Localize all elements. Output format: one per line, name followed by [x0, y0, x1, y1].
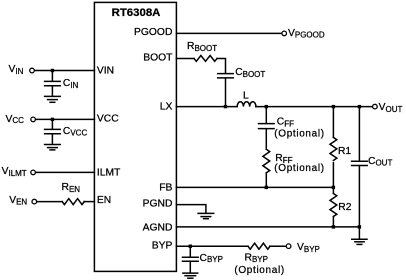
- capacitor CBOOT: [218, 73, 234, 75]
- wire CFF branch upper: [265, 107, 267, 123]
- svg-text:FB: FB: [159, 183, 172, 194]
- capacitor COUT: [352, 160, 368, 162]
- svg-text:VEN: VEN: [9, 195, 27, 206]
- IC U1 body RT6308A: [94, 2, 176, 271]
- wire LX to VOUT: [256, 106, 373, 108]
- svg-text:BYP: BYP: [152, 240, 173, 251]
- node BOOT-LX junction: [224, 105, 227, 108]
- ground CIN: [45, 95, 61, 97]
- svg-text:R1: R1: [338, 146, 351, 157]
- node R2-AGND junction: [332, 225, 335, 228]
- wire PGOOD: [176, 32, 282, 34]
- terminal VEN: [32, 199, 37, 204]
- resistor RFF: [263, 149, 270, 173]
- capacitor CVCC: [45, 128, 61, 130]
- wire BOOT left segment: [176, 58, 194, 60]
- terminal VCC: [31, 117, 36, 122]
- wire RFF to FB: [265, 173, 267, 188]
- capacitor CIN: [45, 80, 61, 82]
- svg-text:LX: LX: [160, 102, 173, 113]
- wire R2 upper: [332, 187, 334, 193]
- wire BOOT to CBOOT corner: [217, 59, 226, 73]
- wire ILMT: [36, 171, 95, 173]
- node VCC junction: [51, 118, 54, 121]
- svg-text:R2: R2: [338, 202, 351, 213]
- svg-text:VCC: VCC: [6, 114, 25, 125]
- wire VIN: [34, 70, 94, 72]
- wire PGND: [176, 205, 206, 213]
- svg-text:EN: EN: [97, 195, 111, 206]
- node CFF-LX junction: [265, 105, 268, 108]
- svg-text:VIN: VIN: [97, 66, 114, 77]
- svg-text:VBYP: VBYP: [297, 242, 320, 254]
- svg-text:BOOT: BOOT: [143, 52, 173, 63]
- wire CFF to RFF: [265, 129, 267, 149]
- svg-text:PGOOD: PGOOD: [134, 27, 172, 38]
- terminal VBYP: [286, 244, 291, 249]
- terminal VILMT: [31, 170, 36, 175]
- wire FB: [176, 186, 333, 188]
- svg-text:CBOOT: CBOOT: [235, 67, 265, 79]
- resistor RBYP: [248, 243, 270, 249]
- wire CBYP branch: [189, 246, 191, 256]
- wire LX: [176, 106, 237, 108]
- node COUT-AGND junction: [358, 225, 361, 228]
- wire EN left segment: [37, 201, 63, 203]
- svg-text:(Optional): (Optional): [274, 129, 324, 140]
- svg-text:CFF: CFF: [277, 117, 294, 129]
- inductor L: [237, 102, 256, 107]
- wire CVCC branch: [51, 119, 53, 128]
- ground CVCC: [45, 144, 61, 146]
- ground CBYP: [183, 272, 198, 274]
- svg-text:(Optional): (Optional): [274, 163, 324, 174]
- wire CIN to ground: [51, 86, 53, 95]
- wire CBOOT to LX: [225, 79, 227, 107]
- wire CVCC to ground: [51, 134, 53, 144]
- wire R1 branch upper: [332, 107, 334, 138]
- wire R1 to FB: [332, 163, 334, 188]
- svg-text:RT6308A: RT6308A: [112, 7, 161, 19]
- svg-text:AGND: AGND: [143, 223, 173, 234]
- node RFF-FB junction: [265, 186, 268, 189]
- resistor REN: [62, 199, 84, 205]
- resistor R1: [330, 137, 337, 160]
- node COUT-LX junction: [358, 105, 361, 108]
- svg-text:CBYP: CBYP: [200, 253, 223, 264]
- svg-text:VPGOOD: VPGOOD: [288, 28, 325, 40]
- svg-text:PGND: PGND: [143, 199, 173, 210]
- wire COUT upper: [358, 107, 360, 161]
- node VIN junction: [51, 69, 54, 72]
- ground PGND: [198, 212, 214, 214]
- node R1-LX junction: [332, 105, 335, 108]
- wire R2 to AGND: [332, 217, 334, 227]
- wire AGND to ground: [358, 227, 360, 239]
- wire BYP: [176, 245, 248, 247]
- resistor R2: [330, 194, 337, 217]
- wire VCC: [36, 118, 95, 120]
- capacitor CBYP: [183, 256, 199, 258]
- svg-text:L: L: [243, 90, 249, 101]
- node BYP junction: [189, 245, 192, 248]
- resistor RBOOT: [194, 56, 217, 62]
- node R1-R2-FB junction: [332, 186, 335, 189]
- svg-text:VCC: VCC: [97, 113, 119, 124]
- wire COUT to AGND: [358, 166, 360, 227]
- svg-text:(Optional): (Optional): [234, 265, 284, 276]
- svg-text:COUT: COUT: [368, 156, 392, 168]
- ground output: [352, 238, 367, 240]
- wire EN right segment: [84, 201, 94, 203]
- wire CIN branch: [51, 71, 53, 81]
- wire CBYP to ground: [189, 262, 191, 273]
- wire AGND: [176, 226, 359, 228]
- capacitor CFF: [259, 123, 275, 125]
- wire RBYP to VBYP terminal: [270, 245, 286, 247]
- terminal VOUT: [373, 104, 378, 109]
- svg-text:ILMT: ILMT: [97, 168, 121, 179]
- terminal VPGOOD: [282, 31, 287, 36]
- terminal VIN: [30, 68, 35, 73]
